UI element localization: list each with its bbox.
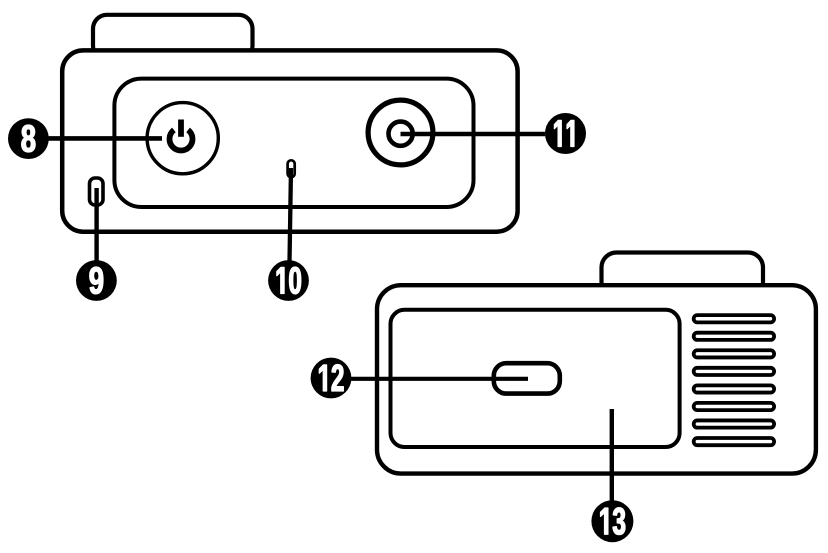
status LED 10 [288,160,295,177]
air vent slat 1 [694,315,774,322]
leader line 12 [348,377,528,381]
projector bottom view: top handle bump [602,253,764,298]
projector rear view: inner control panel [114,79,473,207]
leader line 9 [94,188,98,262]
lens/focus button inner circle [389,122,413,146]
leader line 8 [42,136,162,141]
lamp cover latch 12 [494,363,560,393]
projector bottom view: lamp cover panel [391,310,680,447]
callout badge 8 [8,118,49,159]
air vent slat 6 [694,403,774,410]
projector rear view: top handle bump [93,15,253,60]
callout badge 13 [591,500,633,542]
callout badge 10 [268,260,309,301]
air vent slat 4 [694,368,774,375]
callout badge 9 [76,260,117,301]
air vent slat 3 [694,350,774,357]
power icon bar [178,120,184,137]
air vent slat 5 [694,385,774,392]
leader line 11 [401,132,546,137]
projector rear view: outer body [62,50,517,231]
status LED 9 [90,178,104,205]
leader line 13 [610,409,614,502]
air vent slat 7 [694,420,774,427]
air vent slat 8 [694,438,774,445]
projector bottom view: outer body [377,285,816,473]
power icon arc [170,130,193,151]
leader line 10 [290,168,292,262]
lens/focus button outer circle [368,100,433,165]
callout badge 11 [545,113,586,154]
callout badge 12 [311,358,352,399]
power button circle [147,103,218,174]
air vent slat 2 [694,333,774,340]
